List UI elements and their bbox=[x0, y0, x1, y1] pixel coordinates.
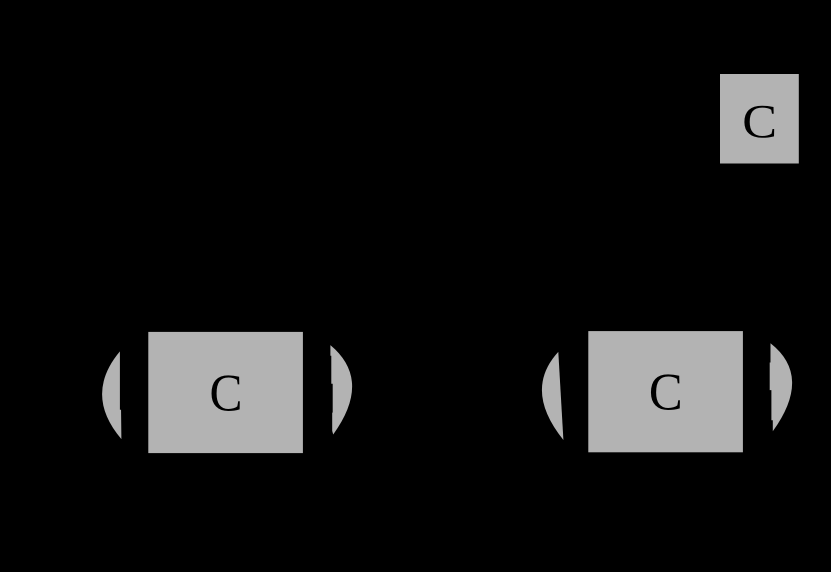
link L1 left crescent bbox=[102, 351, 121, 439]
node box C1 (top right) bbox=[720, 74, 799, 164]
svg-text:C: C bbox=[210, 365, 243, 423]
svg-text:C: C bbox=[742, 96, 777, 149]
machine M2 body (right, label C) bbox=[588, 331, 743, 452]
link L2 left crescent bbox=[542, 352, 563, 440]
svg-text:C: C bbox=[649, 364, 683, 422]
link L1 right crescent bbox=[330, 345, 352, 434]
link L2 right crescent bbox=[770, 343, 792, 431]
machine M1 body (left, label C) bbox=[148, 332, 303, 453]
